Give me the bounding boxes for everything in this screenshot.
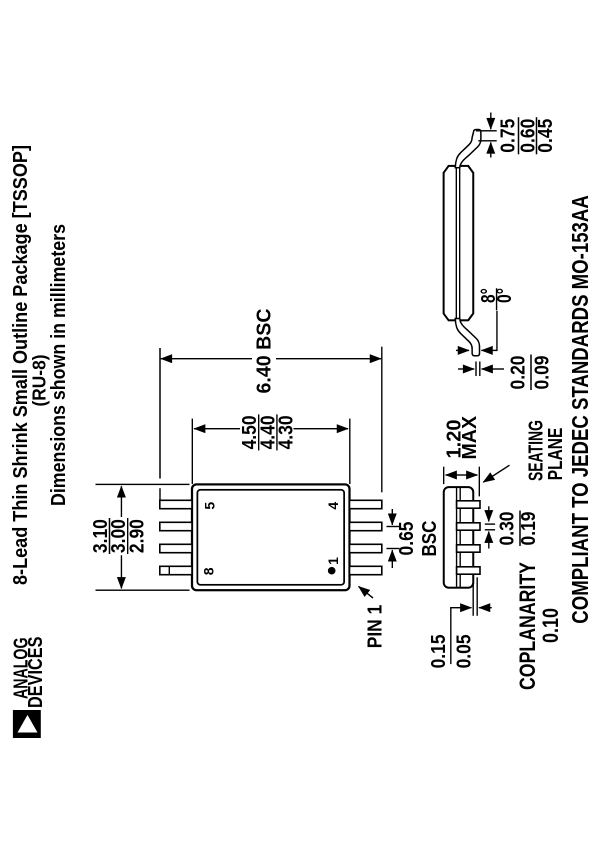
svg-text:6.40 BSC: 6.40 BSC bbox=[253, 308, 276, 393]
dim 3.10/3.00/2.90 arrows bbox=[120, 555, 122, 588]
dim 0.75/0.60/0.45 text bbox=[497, 117, 558, 154]
dim 0.15/0.05 leader and arrows bbox=[451, 608, 472, 664]
dim 0.20/0.09 arrows bbox=[458, 368, 474, 370]
svg-text:BSC: BSC bbox=[418, 520, 441, 556]
dim 4.50/4.40/4.30 extension lines bbox=[191, 419, 193, 484]
dim 4.50/4.40/4.30 arrows bbox=[194, 428, 240, 430]
svg-text:2.90: 2.90 bbox=[125, 519, 148, 553]
seating plane arrow bbox=[483, 465, 509, 482]
svg-text:PLANE: PLANE bbox=[544, 428, 567, 481]
dim 4.50/4.40/4.30 text bbox=[238, 414, 297, 450]
svg-text:4: 4 bbox=[325, 502, 341, 510]
dim 6.40 BSC extension lines bbox=[159, 488, 161, 500]
dim 1.20 MAX arrows bbox=[446, 474, 478, 476]
svg-text:0.20: 0.20 bbox=[507, 356, 530, 390]
svg-text:Dimensions shown in millimeter: Dimensions shown in millimeters bbox=[47, 224, 70, 506]
dim 0.30/0.19 arrows bbox=[488, 506, 490, 521]
svg-text:0.10: 0.10 bbox=[538, 608, 563, 643]
bottom leads bbox=[350, 500, 382, 574]
svg-text:0.09: 0.09 bbox=[531, 356, 554, 390]
svg-text:4.30: 4.30 bbox=[275, 415, 298, 449]
svg-text:0.65: 0.65 bbox=[395, 522, 418, 556]
svg-text:0.19: 0.19 bbox=[517, 512, 540, 546]
dim 8/0 deg arrows bbox=[456, 349, 469, 351]
dim 1.20 MAX extension lines bbox=[443, 467, 445, 484]
svg-text:0.15: 0.15 bbox=[427, 634, 450, 668]
pin 1 dot bbox=[328, 567, 336, 575]
dim 6.40 BSC arrows bbox=[161, 358, 252, 360]
end view parting lines bbox=[455, 167, 457, 320]
svg-text:COMPLIANT TO JEDEC STANDARDS M: COMPLIANT TO JEDEC STANDARDS MO-153AA bbox=[567, 195, 593, 624]
svg-text:PIN 1: PIN 1 bbox=[364, 605, 387, 649]
dim 0.65 BSC arrows bbox=[391, 550, 393, 568]
dim 3.10/3.00/2.90 extension lines bbox=[96, 589, 190, 591]
left gull-wing lead bbox=[455, 319, 479, 356]
svg-text:0.30: 0.30 bbox=[496, 512, 519, 546]
dim 0.20/0.09 extension lines bbox=[475, 362, 477, 377]
svg-text:0.05: 0.05 bbox=[453, 634, 476, 668]
svg-text:COPLANARITY: COPLANARITY bbox=[515, 562, 540, 690]
svg-text:0°: 0° bbox=[493, 288, 516, 303]
svg-text:DEVICES: DEVICES bbox=[24, 637, 47, 709]
side view body bbox=[444, 487, 474, 588]
ADI logo box bbox=[13, 710, 41, 738]
side view lead sections bbox=[457, 501, 480, 574]
right gull-wing lead bbox=[455, 130, 481, 168]
dim 0.65 BSC extension lines bbox=[387, 548, 400, 550]
top view body outer bbox=[192, 484, 350, 590]
svg-text:8: 8 bbox=[201, 567, 217, 575]
dim 0.75/0.60/0.45 arrows bbox=[490, 142, 492, 157]
dim 0.15/0.05 extension lines bbox=[472, 577, 474, 616]
svg-text:MAX: MAX bbox=[458, 416, 481, 460]
ADI logo text bbox=[10, 637, 48, 709]
top view body inner bbox=[197, 490, 344, 585]
end view body bbox=[444, 166, 474, 320]
mark on top-left lead bbox=[168, 566, 170, 574]
svg-text:0.45: 0.45 bbox=[534, 119, 557, 153]
svg-text:1: 1 bbox=[325, 557, 341, 565]
svg-text:5: 5 bbox=[202, 502, 218, 510]
dim 0.75/0.60/0.45 extension lines bbox=[478, 140, 496, 142]
dim 3.10/3.00/2.90 text bbox=[89, 518, 148, 554]
dim 0.30/0.19 extension lines bbox=[485, 529, 495, 531]
top leads bbox=[160, 500, 192, 574]
side view parting line bbox=[456, 488, 458, 587]
PIN 1 arrow bbox=[359, 586, 373, 598]
